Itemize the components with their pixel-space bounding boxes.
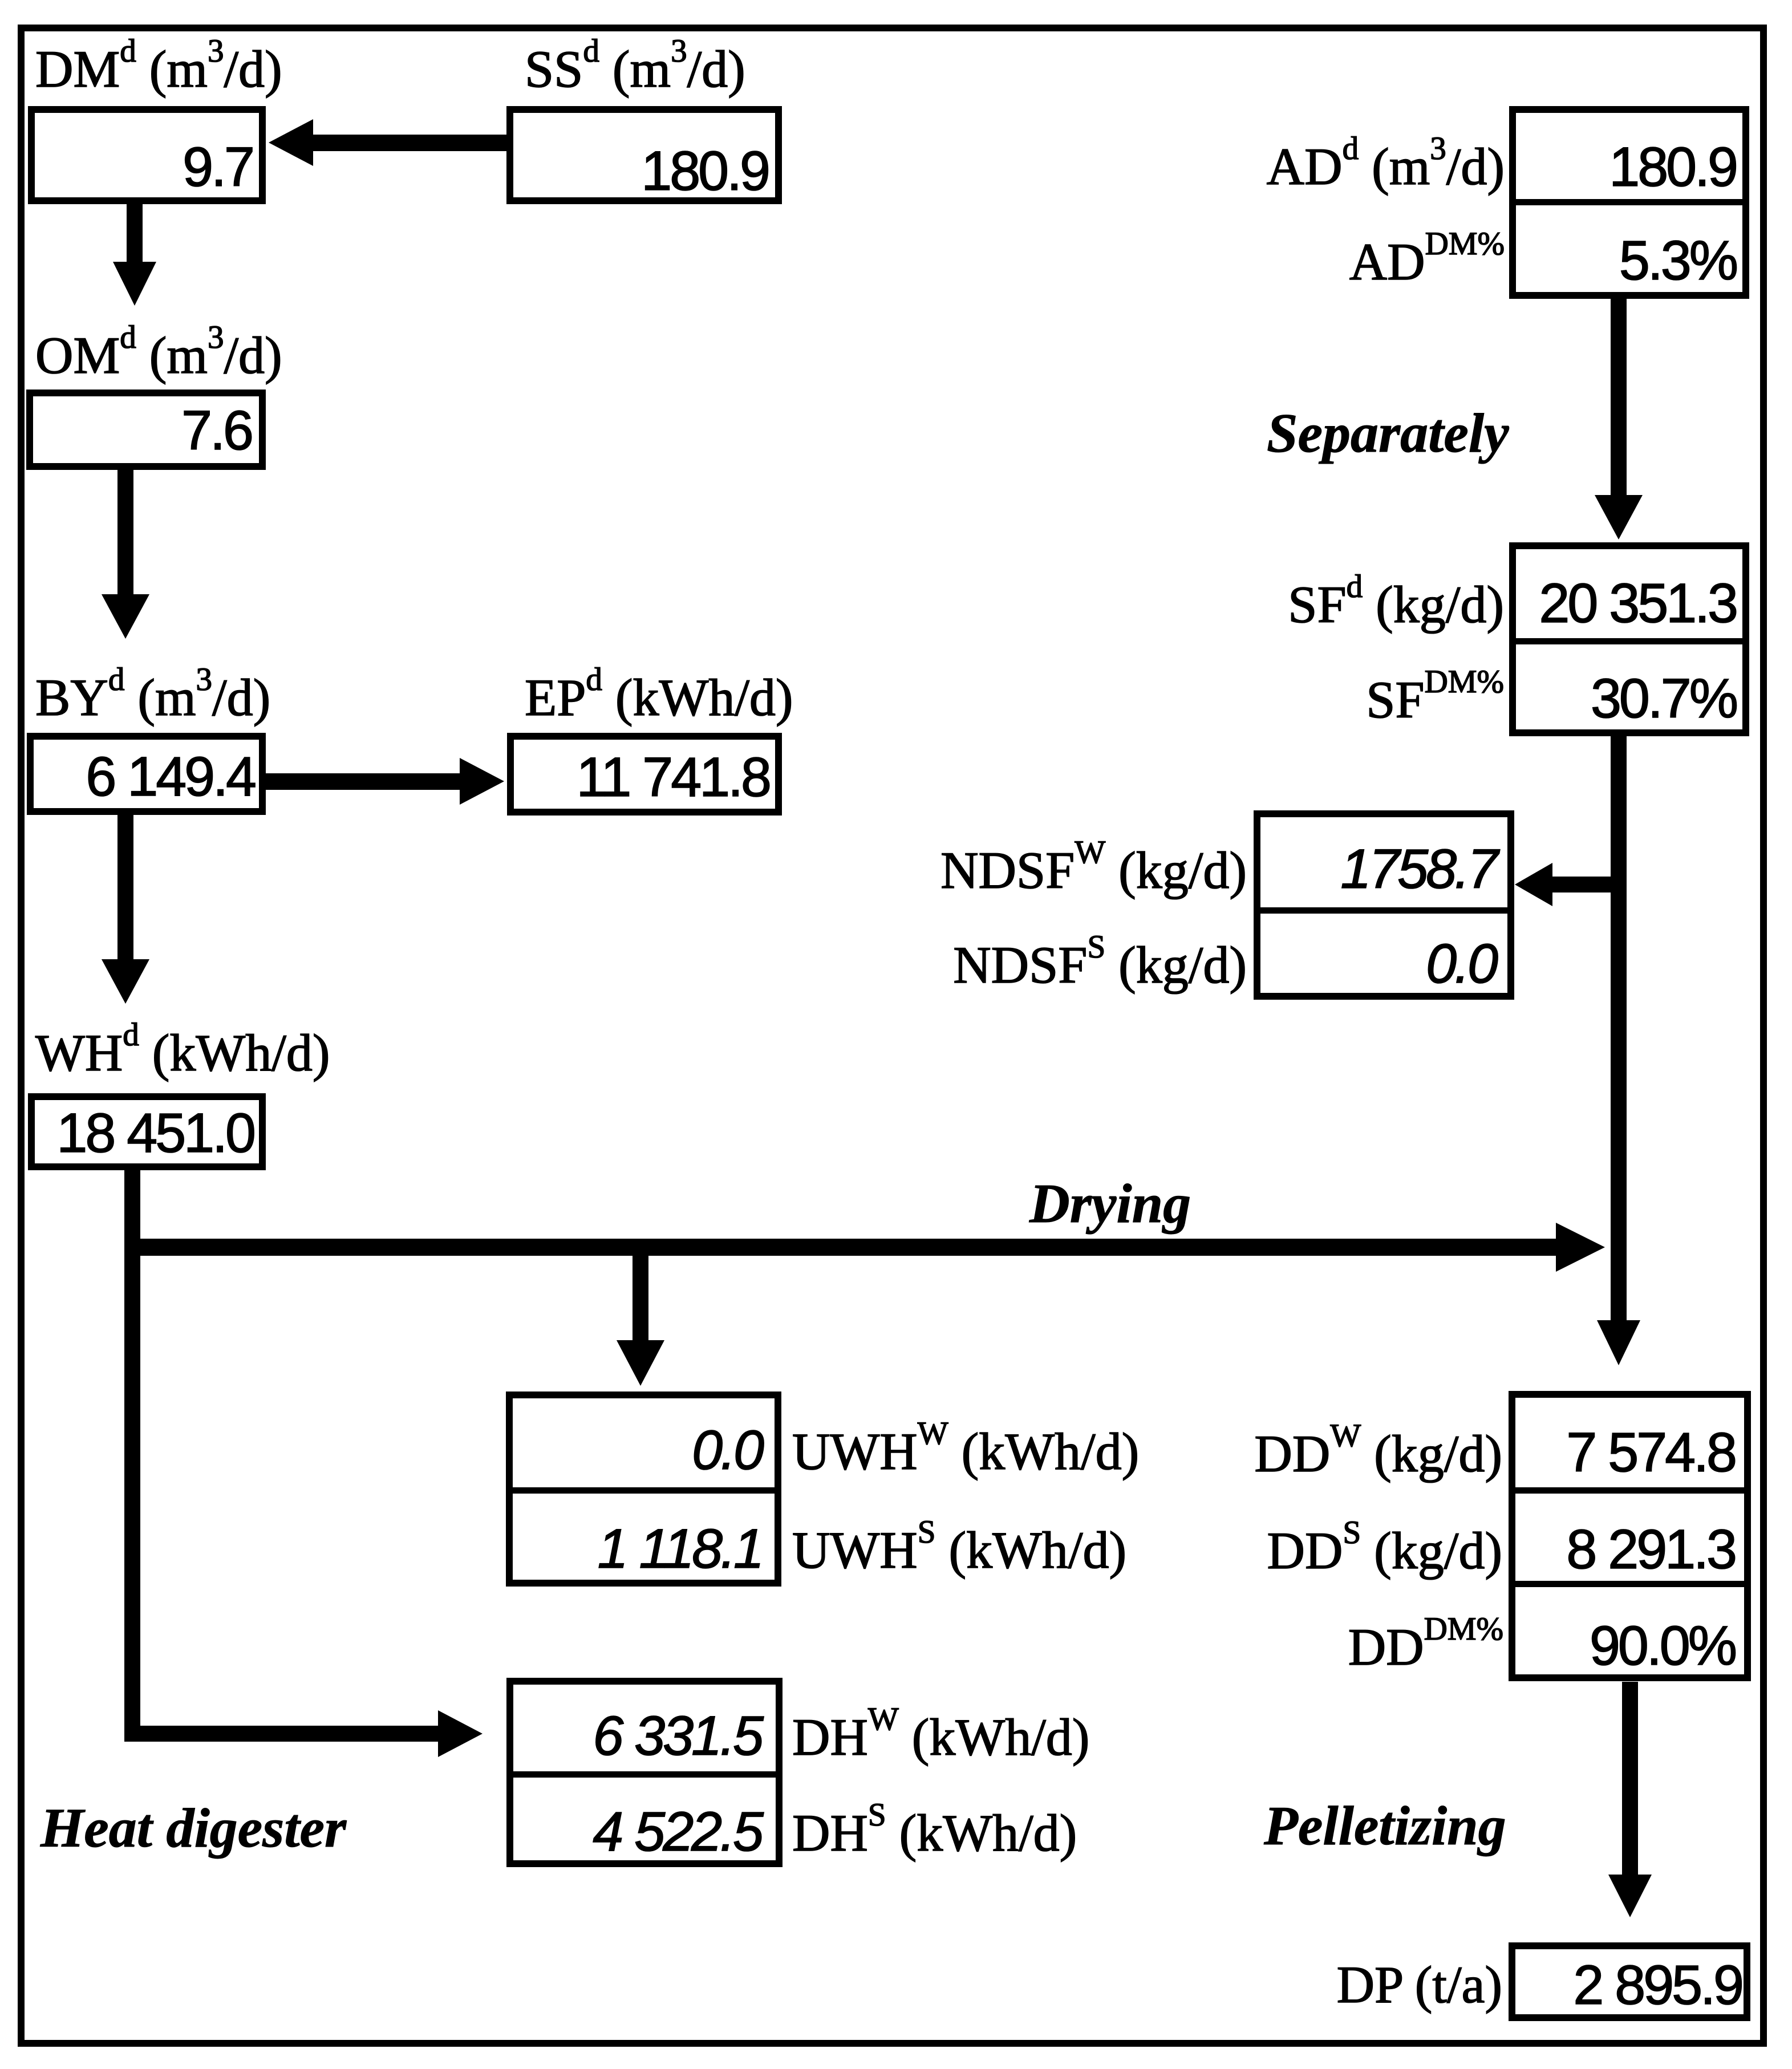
box WH <box>28 1093 266 1170</box>
note Separately <box>1267 405 1509 461</box>
value EP 11 741.8 <box>577 749 769 805</box>
label DDS <box>1267 1524 1502 1577</box>
label ADDM% <box>1349 236 1505 288</box>
arrow DD to DP <box>1608 1682 1652 1917</box>
value AD 5.3% <box>1619 233 1736 288</box>
value BY 6 149.4 <box>86 749 254 804</box>
value AD 180.9 <box>1609 139 1736 194</box>
box NDSF (two rows) <box>1254 810 1514 1000</box>
label ADd <box>1267 140 1505 193</box>
value SF 30.7% <box>1591 671 1736 726</box>
box DP <box>1509 1942 1750 2021</box>
value UWH 0.0 <box>692 1422 762 1478</box>
label NDSFS <box>953 939 1247 991</box>
value NDSF 1758.7 <box>1340 841 1496 896</box>
arrow DM to OM <box>113 204 156 306</box>
divider DH <box>511 1771 778 1778</box>
box AD (two rows) <box>1509 106 1749 299</box>
label NDSFW <box>940 844 1247 896</box>
label DDDM% <box>1348 1621 1503 1673</box>
label OMd <box>35 329 282 382</box>
arrow branch to NDSF <box>1515 863 1619 906</box>
wire WH down and arrow to DH <box>124 1170 483 1757</box>
label DHS <box>792 1807 1077 1859</box>
value UWH 1 118.1 <box>598 1521 762 1576</box>
divider SF <box>1514 638 1745 644</box>
divider NDSF <box>1258 907 1510 914</box>
label SSd <box>525 43 745 95</box>
value DD 90.0% <box>1590 1618 1735 1673</box>
note Heat digester <box>40 1800 346 1856</box>
value SS 180.9 <box>641 143 768 198</box>
label DDW <box>1254 1427 1502 1480</box>
value DH 6 331.5 <box>593 1708 761 1763</box>
divider AD <box>1514 199 1745 205</box>
label DHW <box>792 1711 1089 1763</box>
value DM 9.7 <box>183 139 253 194</box>
note Pelletizing <box>1264 1798 1506 1854</box>
label UWHS <box>792 1524 1126 1576</box>
arrow BY to EP <box>266 758 504 805</box>
wire SF down with arrow to DD <box>1597 735 1640 1365</box>
box DD (three rows) <box>1509 1391 1751 1681</box>
box DM <box>28 106 266 204</box>
value DP 2 895.9 <box>1573 1957 1742 2013</box>
value DD 7 574.8 <box>1566 1425 1735 1480</box>
box DH (two rows) <box>506 1678 783 1867</box>
label DP <box>1337 1958 1502 2011</box>
value SF 20 351.3 <box>1539 575 1736 631</box>
value NDSF 0.0 <box>1426 936 1496 991</box>
label SFDM% <box>1366 674 1504 726</box>
value WH 18 451.0 <box>56 1105 254 1161</box>
box UWH (two rows) <box>506 1391 781 1587</box>
label SFd <box>1288 578 1504 631</box>
box EP <box>507 733 782 816</box>
box OM <box>26 390 266 470</box>
label WHd <box>35 1027 330 1079</box>
arrow OM to BY <box>102 470 149 639</box>
arrow SS to DM <box>269 119 506 166</box>
value DD 8 291.3 <box>1566 1522 1735 1577</box>
arrow branch to UWH <box>617 1255 664 1386</box>
label UWHW <box>792 1425 1139 1478</box>
divider UWH <box>510 1487 777 1494</box>
label BYd <box>35 671 270 724</box>
divider DD 2 <box>1513 1581 1746 1587</box>
box SS <box>506 106 782 204</box>
label DMd <box>35 43 282 95</box>
arrow Drying to right <box>124 1223 1605 1272</box>
divider DD 1 <box>1513 1487 1746 1494</box>
arrow AD to SF <box>1595 298 1643 539</box>
value DH 4 522.5 <box>593 1804 761 1859</box>
value OM 7.6 <box>181 403 252 458</box>
box SF (two rows) <box>1509 542 1749 736</box>
box BY <box>27 733 266 815</box>
arrow BY to WH <box>102 814 149 1004</box>
label EPd <box>525 671 793 724</box>
note Drying <box>1029 1176 1191 1232</box>
